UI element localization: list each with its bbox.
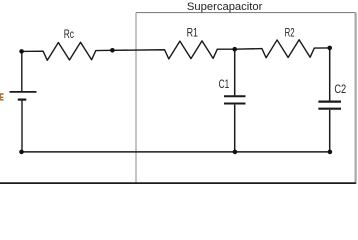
svg-text:Supercapacitor: Supercapacitor	[187, 1, 263, 13]
svg-text:R1: R1	[187, 25, 199, 39]
svg-text:C2: C2	[334, 82, 346, 96]
svg-text:Rc: Rc	[64, 27, 74, 41]
svg-text:R2: R2	[285, 26, 295, 40]
svg-text:C1: C1	[219, 77, 230, 91]
